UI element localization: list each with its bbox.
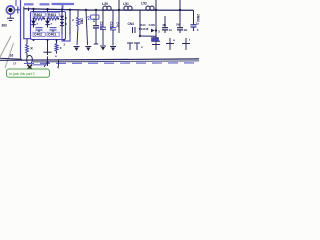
capacitor C400 plate left — [17, 7, 19, 14]
wire tick x58 — [58, 60, 60, 67]
wire vertical bus left — [20, 0, 22, 59]
ground G8 — [166, 38, 175, 50]
svg-text:2: 2 — [72, 18, 74, 22]
svg-text:1n: 1n — [169, 28, 173, 32]
node wire x70 — [69, 9, 71, 11]
svg-text:17: 17 — [13, 62, 17, 66]
wire branch tick — [44, 62, 48, 67]
diode D402 — [31, 19, 36, 28]
svg-text:C4: C4 — [92, 19, 96, 23]
diode D406 — [151, 29, 155, 33]
wire highlighted dash 1 — [24, 3, 34, 5]
wire vertical x119 — [118, 0, 120, 33]
capacitor C403 — [99, 10, 106, 45]
svg-text:1N4148: 1N4148 — [139, 27, 149, 31]
node main wire x47 — [46, 8, 48, 10]
cable line 16 — [0, 58, 22, 59]
resistor R403 — [26, 39, 34, 57]
svg-text:C4: C4 — [87, 16, 91, 20]
wire stub box left — [33, 9, 35, 12]
ground under connector — [7, 14, 14, 20]
wire lower drop x47 — [47, 57, 49, 67]
wire stub above connector — [15, 0, 17, 6]
node dash junction — [46, 62, 48, 64]
net label box blue — [152, 38, 159, 42]
svg-text:3: 3 — [158, 30, 160, 34]
node wire x96 — [95, 9, 97, 11]
ground G9 — [182, 38, 190, 51]
svg-text:2M2: 2M2 — [80, 18, 84, 24]
annotation green box — [7, 69, 50, 77]
ground G0 — [44, 52, 52, 55]
node bus x64 — [63, 39, 65, 41]
label C402 — [33, 32, 45, 37]
capacitor C408 — [191, 22, 200, 33]
capacitor C407 — [176, 23, 188, 34]
node box mid1 — [43, 18, 45, 20]
wire vertical x156 — [155, 0, 157, 38]
svg-text:x: x — [60, 46, 62, 50]
node box mid2 — [47, 18, 49, 20]
svg-text:363: 363 — [2, 24, 8, 28]
svg-text:R402: R402 — [34, 13, 42, 17]
ground G1 — [74, 47, 80, 52]
svg-text:1G: 1G — [184, 28, 189, 32]
inductor L401 — [103, 6, 111, 10]
node wire x180 — [179, 9, 181, 11]
wire horizontal y36 — [140, 35, 156, 37]
wire bottom bus gray — [33, 61, 199, 62]
svg-text:C4B: C4B — [149, 23, 156, 27]
svg-text:x: x — [141, 45, 143, 49]
node x140 bottom — [139, 35, 141, 37]
capacitor C401 — [50, 28, 57, 32]
callout line A — [0, 36, 11, 57]
node wire x119 — [118, 9, 120, 11]
wire vertical x86 — [86, 10, 88, 45]
node wire x156 — [155, 9, 157, 11]
svg-text:26: 26 — [176, 23, 180, 27]
resistor R405 — [77, 10, 84, 45]
ground G3 — [100, 46, 106, 51]
svg-text:C404: C404 — [99, 22, 103, 30]
svg-text:a: a — [159, 39, 161, 43]
wire bottom bus dark — [0, 59, 199, 60]
capacitor C400 series — [24, 7, 31, 39]
node bus x47 — [47, 39, 49, 41]
connector J1 input jack — [6, 6, 20, 14]
node box right — [57, 18, 59, 20]
ground G5 — [127, 43, 133, 50]
diode D403 — [60, 10, 64, 35]
wire highlighted L segment — [52, 3, 75, 5]
wire highlighted U link — [62, 34, 70, 41]
label box net — [91, 15, 100, 19]
ground G2 — [85, 47, 91, 52]
callout line B — [5, 43, 14, 68]
node box left — [33, 18, 35, 20]
wire end corner — [193, 10, 195, 24]
node x156 y30 — [155, 29, 157, 31]
svg-text:to jack this part 3: to jack this part 3 — [10, 72, 35, 76]
ground G7 — [152, 39, 161, 50]
wire vertical x180 — [179, 0, 181, 28]
wire highlighted dash 2 — [40, 3, 50, 5]
inductor L403 — [146, 6, 154, 10]
label R401 — [47, 12, 59, 16]
node wire x62 — [61, 8, 63, 10]
svg-text:C414: C414 — [109, 22, 113, 30]
svg-text:R401: R401 — [48, 13, 56, 17]
svg-text:L30: L30 — [102, 2, 108, 6]
label C401 — [47, 32, 59, 37]
svg-text:t: t — [189, 38, 190, 42]
relay box U400 — [31, 12, 66, 40]
svg-text:C402: C402 — [34, 33, 42, 37]
resistor R401 — [48, 17, 59, 20]
node main wire x33 — [32, 8, 34, 10]
diode D404 — [60, 16, 68, 26]
wire stub box right — [47, 9, 49, 12]
svg-text:L51: L51 — [123, 2, 129, 6]
svg-text:C401: C401 — [48, 33, 56, 37]
crystal X1 — [133, 27, 136, 33]
resistor R404 — [55, 39, 62, 53]
svg-text:16: 16 — [10, 53, 14, 57]
svg-text:2N04: 2N04 — [196, 14, 200, 22]
node wire x86 — [85, 9, 87, 11]
svg-text:CN4: CN4 — [128, 22, 135, 26]
node bus x33 — [33, 39, 35, 41]
wire relay to bottom — [47, 40, 49, 53]
connector loop — [27, 55, 33, 63]
inductor L402 — [124, 6, 132, 10]
tick x28 — [28, 8, 30, 12]
capacitor C405 — [93, 10, 99, 44]
capacitor C406 — [162, 16, 172, 33]
label R402 — [33, 12, 45, 16]
wire main horizontal — [24, 9, 194, 11]
wire blue short lower — [33, 64, 47, 66]
wire vertical x70 — [69, 10, 71, 35]
svg-text:1x: 1x — [196, 22, 200, 26]
ground G6 — [134, 43, 143, 50]
diode D401 — [45, 19, 50, 28]
svg-text:L52: L52 — [141, 2, 147, 6]
wire vertical x140 — [139, 10, 141, 36]
wire dashed blue bus — [24, 62, 199, 65]
cursor mark — [27, 65, 32, 70]
capacitor C404 — [109, 10, 116, 45]
ground G4 — [110, 47, 116, 52]
svg-text:a: a — [173, 38, 175, 42]
resistor R402 — [34, 17, 45, 20]
capacitor C402 — [36, 28, 43, 32]
